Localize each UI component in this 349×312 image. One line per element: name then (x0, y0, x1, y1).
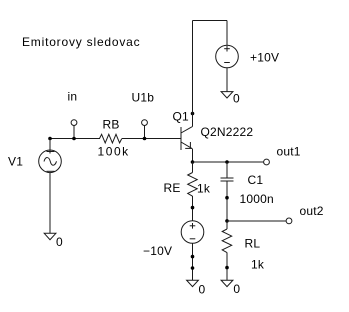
wire emitter vertical (192, 149, 194, 162)
junction dot above RL ground (225, 266, 229, 270)
svg-text:0: 0 (199, 283, 206, 297)
svg-text:100k: 100k (98, 145, 130, 159)
wire main horizontal right segment to Q1 base (122, 138, 181, 140)
pin out1 (264, 159, 270, 165)
wire V1 top lead (49, 139, 51, 154)
svg-text:RB: RB (103, 117, 120, 131)
svg-text:0: 0 (233, 282, 240, 296)
svg-text:Emitorovy sledovac: Emitorovy sledovac (22, 35, 140, 49)
wire RL top lead (226, 221, 228, 229)
wire V1 bottom lead (49, 173, 51, 234)
junction dot under in (72, 137, 76, 141)
wire C1 top lead (226, 162, 228, 178)
junction dot C1 top (225, 160, 229, 164)
junction dot emitter node (191, 160, 195, 164)
pin in (71, 120, 77, 126)
ground below V1 (44, 233, 56, 239)
wire out2 horizontal (227, 220, 286, 222)
ground below RL (221, 280, 233, 286)
wire RL bottom lead (226, 253, 228, 281)
voltage source +10V (216, 45, 239, 68)
wire +10V top lead (226, 21, 228, 46)
wire collector vertical (192, 21, 194, 127)
wire main horizontal left segment (50, 138, 100, 140)
voltage source -10V (181, 221, 204, 244)
junction dot RE to -10V (191, 206, 195, 210)
svg-text:V1: V1 (8, 154, 23, 168)
pin out2 (286, 218, 292, 224)
capacitor C1 (221, 178, 234, 181)
svg-text:RL: RL (245, 237, 261, 251)
svg-text:out1: out1 (277, 144, 301, 158)
svg-text:C1: C1 (248, 173, 264, 187)
resistor RE (188, 173, 198, 197)
svg-text:1k: 1k (251, 258, 265, 272)
wire RE bottom lead (192, 196, 194, 221)
junction dot below -10V lower (191, 266, 195, 270)
svg-text:+10V: +10V (250, 51, 279, 65)
wire C1 bottom lead (226, 181, 228, 221)
wire U1b pin stem (144, 126, 146, 139)
svg-text:−10V: −10V (143, 244, 172, 258)
svg-text:out2: out2 (300, 204, 324, 218)
wire in pin stem (73, 126, 75, 139)
voltage source V1 (sine) (39, 150, 62, 173)
ground below +10V (221, 92, 233, 98)
junction dot below C1 (225, 196, 229, 200)
svg-text:0: 0 (56, 235, 63, 249)
svg-text:Q1: Q1 (173, 110, 190, 124)
svg-text:1k: 1k (197, 181, 211, 195)
svg-text:in: in (68, 89, 78, 103)
svg-text:RE: RE (164, 181, 181, 195)
junction dot collector (191, 112, 195, 116)
wire top horizontal (193, 20, 228, 22)
resistor RB (100, 134, 122, 143)
wire +10V bottom lead (226, 68, 228, 92)
wire RE top lead (192, 162, 194, 173)
junction dot V1 top (48, 137, 52, 141)
svg-text:1000n: 1000n (240, 192, 274, 206)
junction dot under U1b (143, 137, 147, 141)
pin U1b (142, 120, 148, 126)
transistor Q1 (181, 127, 193, 151)
svg-text:0: 0 (233, 92, 240, 106)
wire -10V bottom lead (192, 243, 194, 280)
resistor RL (222, 229, 232, 253)
wire out1 horizontal (193, 161, 264, 163)
ground below -10V (187, 280, 199, 286)
junction dot out2 node (225, 219, 229, 223)
svg-text:Q2N2222: Q2N2222 (201, 125, 254, 139)
svg-text:U1b: U1b (132, 91, 155, 105)
junction dot below -10V upper (191, 255, 195, 259)
